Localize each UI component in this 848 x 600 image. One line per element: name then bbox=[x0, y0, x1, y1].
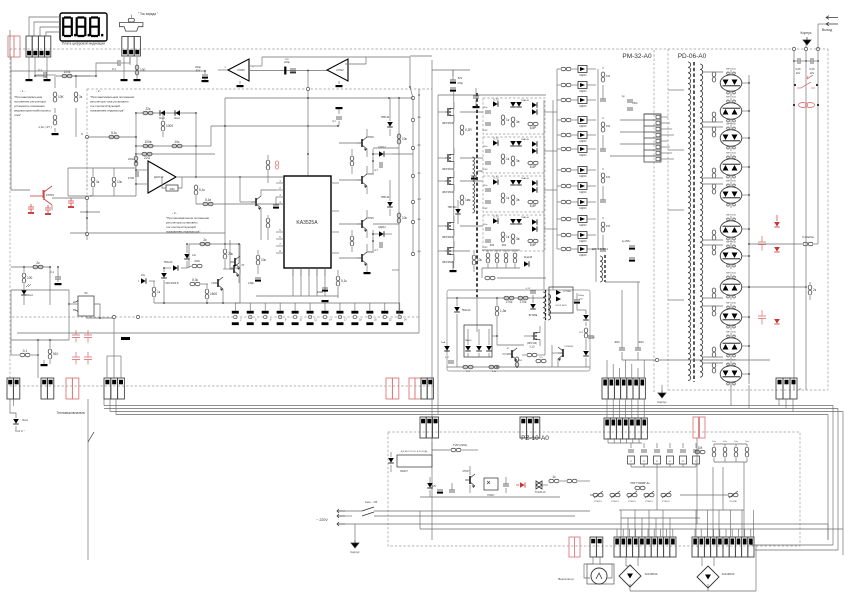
cap C12 4,7 bbox=[374, 242, 382, 252]
connector X10 red bbox=[569, 537, 580, 557]
svg-text:51Ω: 51Ω bbox=[518, 360, 522, 362]
bleeder bank PZ bbox=[712, 441, 749, 462]
svg-text:КД213: КД213 bbox=[579, 254, 587, 257]
thermistor wires bbox=[590, 494, 727, 496]
terminal strip XT3 7-pin bbox=[604, 418, 647, 439]
svg-text:- 2 -: - 2 - bbox=[172, 211, 177, 215]
chassis ground mains bbox=[350, 524, 360, 554]
svg-text:R20: R20 bbox=[490, 244, 495, 247]
capacitor C4 220u bbox=[284, 59, 290, 75]
junction bbox=[75, 75, 77, 77]
junction x136 dots bbox=[135, 112, 137, 163]
label PZ-10-A0 bbox=[521, 435, 549, 442]
wire y204 mid bbox=[196, 203, 284, 205]
dual diode module 6 bbox=[702, 215, 742, 243]
svg-text:1М: 1М bbox=[698, 446, 703, 450]
resistor R43 1600 bbox=[205, 284, 217, 303]
right diode D24 bbox=[583, 310, 589, 326]
connector X3 plug bbox=[119, 15, 142, 32]
sense resistor R26 bbox=[460, 195, 471, 205]
wire Q3 down bbox=[230, 262, 240, 274]
PD core line bbox=[693, 62, 695, 382]
wire y267 left bbox=[11, 266, 51, 268]
resistor R54 5,5 bbox=[536, 357, 546, 363]
resistor R6 5,1k bbox=[109, 131, 119, 139]
diode D4 thermal bbox=[13, 418, 28, 433]
svg-text:1,3к ( 4Т ): 1,3к ( 4Т ) bbox=[38, 125, 51, 129]
svg-text:IRFP250M: IRFP250M bbox=[442, 191, 454, 194]
svg-text:10к: 10к bbox=[117, 180, 123, 184]
svg-text:КД213: КД213 bbox=[579, 90, 587, 93]
svg-text:4,7: 4,7 bbox=[374, 168, 378, 172]
svg-text:положении регулятора: положении регулятора bbox=[14, 100, 46, 104]
op-amp DA1 bbox=[148, 161, 176, 193]
resistor R38 10k bbox=[397, 213, 407, 223]
diode D28 bbox=[486, 329, 492, 357]
svg-text:220Р: 220Р bbox=[482, 247, 488, 249]
svg-text:5,3к: 5,3к bbox=[192, 278, 198, 282]
svg-text:Д-К 08-СТС-10, В 10-П (А): Д-К 08-СТС-10, В 10-П (А) bbox=[401, 450, 428, 453]
rectifier KD213 row 1 bbox=[557, 66, 596, 78]
triac VS1 bbox=[535, 481, 548, 494]
svg-text:6,7U: 6,7U bbox=[493, 99, 498, 102]
svg-text:400V: 400V bbox=[638, 341, 644, 344]
diode D29 7mA bbox=[441, 341, 450, 351]
XT1 wires left bbox=[610, 120, 644, 156]
svg-text:РС817: РС817 bbox=[487, 494, 495, 497]
terminal strip XT4 bbox=[614, 537, 676, 557]
svg-text:KA3525A: KA3525A bbox=[296, 220, 318, 226]
svg-text:10к: 10к bbox=[712, 441, 715, 443]
caps 400V bbox=[614, 282, 644, 360]
svg-text:IRFP250M: IRFP250M bbox=[442, 236, 454, 239]
zener D7 TVR140 bbox=[447, 200, 460, 224]
transistor Q10 bbox=[463, 470, 475, 488]
outer dashed border left bbox=[9, 49, 11, 386]
resistor R53 1k bbox=[515, 357, 522, 367]
red fuse F1 bbox=[793, 103, 819, 108]
svg-text:7мА: 7мА bbox=[441, 341, 446, 344]
resistor R220k bbox=[128, 156, 138, 166]
wire y233 right bbox=[89, 232, 225, 234]
svg-text:510: 510 bbox=[53, 352, 59, 356]
svg-text:КД213: КД213 bbox=[579, 74, 587, 77]
svg-text:0,68μ: 0,68μ bbox=[248, 282, 255, 285]
Q6 wires bbox=[339, 210, 367, 238]
svg-text:10к: 10к bbox=[261, 258, 267, 262]
soft bottom wire bbox=[447, 366, 590, 368]
svg-text:10к: 10к bbox=[734, 441, 737, 443]
svg-text:КД212: КД212 bbox=[378, 225, 386, 229]
node junction y89 bbox=[306, 71, 309, 177]
svg-text:ток соответствующий: ток соответствующий bbox=[166, 225, 196, 229]
bus line 3 bbox=[110, 411, 843, 413]
node label 7 bbox=[85, 194, 92, 200]
zener D20 bbox=[184, 243, 197, 268]
red ground 1 bbox=[28, 212, 34, 214]
svg-text:Ред148: Ред148 bbox=[524, 256, 533, 259]
wire 100k to node bbox=[74, 63, 117, 76]
wire y95 right bbox=[438, 94, 546, 96]
svg-text:Red: Red bbox=[22, 418, 28, 422]
red wire left bbox=[11, 57, 30, 190]
dual diode module 8 bbox=[702, 273, 742, 301]
svg-text:КД212: КД212 bbox=[378, 145, 386, 149]
IC U4 KA3525A box bbox=[284, 176, 331, 268]
capacitor C6 4700 bbox=[128, 171, 138, 180]
svg-text:3в: 3в bbox=[516, 120, 520, 124]
relay K2 box bbox=[397, 450, 432, 473]
output arrows bbox=[818, 16, 838, 49]
svg-text:КД213: КД213 bbox=[579, 140, 587, 143]
wire X2 pins down bbox=[29, 57, 47, 79]
rectifier KD213 row 4 bbox=[557, 117, 596, 129]
bus y317 nodes bbox=[112, 315, 139, 318]
resistor R41 1k bbox=[152, 281, 161, 303]
wire y340 bbox=[11, 339, 69, 341]
svg-text:0,05: 0,05 bbox=[795, 67, 801, 71]
svg-text:ТВА140: ТВА140 bbox=[164, 261, 173, 264]
diode D19 TVR140 bbox=[381, 180, 393, 216]
junction dots bbox=[34, 75, 97, 77]
svg-text:47Ω: 47Ω bbox=[606, 75, 611, 78]
svg-text:4,7: 4,7 bbox=[374, 248, 378, 252]
varistor RV1 TVR bbox=[432, 443, 478, 452]
group cap 1 bbox=[600, 91, 606, 101]
svg-text:100: 100 bbox=[140, 68, 146, 72]
diode D26 bbox=[465, 329, 472, 357]
label current sense bbox=[138, 12, 158, 16]
XT4 wires up bbox=[617, 529, 673, 537]
capacitor C5 bbox=[290, 69, 296, 73]
svg-text:S20-08100: S20-08100 bbox=[645, 572, 658, 576]
capacitor C7 0,1 bbox=[50, 266, 61, 282]
wire x87 down bbox=[86, 200, 88, 218]
wire x69 bbox=[68, 290, 70, 340]
wire chain right bbox=[75, 76, 77, 137]
svg-text:0,1: 0,1 bbox=[38, 68, 43, 72]
svg-text:ТВР140: ТВР140 bbox=[381, 117, 390, 119]
svg-text:"При максимальном: "При максимальном bbox=[14, 95, 42, 99]
driver rail x544 bbox=[543, 100, 545, 290]
svg-text:6,7U: 6,7U bbox=[493, 138, 498, 141]
op-amp U2 K140UD bbox=[228, 59, 249, 81]
sense resistor R25 0,2R bbox=[460, 125, 472, 135]
resistor R40 2200 bbox=[187, 260, 202, 268]
svg-text:5,1к: 5,1к bbox=[199, 188, 205, 192]
display wires to connector bbox=[29, 17, 60, 36]
svg-text:МОСР100-В: МОСР100-В bbox=[165, 283, 178, 285]
label 50v cap bbox=[471, 169, 483, 180]
rail y126 bbox=[211, 125, 339, 127]
mosfet M6 bbox=[524, 326, 540, 346]
svg-text:КВРС3510: КВРС3510 bbox=[726, 97, 737, 99]
wire PZ mid bbox=[469, 466, 471, 493]
cap C28 0,1 bbox=[332, 107, 342, 126]
chassis ground XT2 bbox=[657, 385, 667, 404]
label thermal switch bbox=[56, 411, 85, 415]
KD bus x557 bbox=[556, 69, 558, 249]
ground Q7 bbox=[364, 272, 371, 274]
wire y244 bbox=[189, 233, 240, 245]
wire y168 horizontal bbox=[68, 167, 136, 169]
PD diode outputs to bus bbox=[742, 82, 750, 375]
svg-text:индикаторов наибольшего: индикаторов наибольшего bbox=[14, 109, 51, 113]
chassis ground top bbox=[803, 37, 811, 45]
svg-text:1000μ: 1000μ bbox=[578, 295, 585, 297]
mains wire right bbox=[388, 524, 843, 529]
IC U4 pin stubs bbox=[276, 180, 339, 276]
red diode D10 bbox=[774, 247, 780, 252]
capacitor C19 0,1G bbox=[445, 357, 454, 363]
wire x87 to 190 bbox=[86, 137, 88, 190]
bridge BR2 wires bbox=[702, 557, 714, 566]
svg-text:- 1 -: - 1 - bbox=[20, 89, 25, 93]
bus line 1 bbox=[104, 405, 833, 407]
cap C21 12V bbox=[432, 485, 443, 494]
svg-text:КД213: КД213 bbox=[579, 191, 587, 194]
bridge BR1 wires bbox=[626, 557, 638, 566]
svg-text:"При максимальном положении: "При максимальном положении bbox=[90, 95, 135, 99]
resistor R10 10k bbox=[172, 140, 182, 148]
diode D1 red label bbox=[159, 110, 165, 120]
svg-text:PD-06-A0: PD-06-A0 bbox=[678, 53, 707, 60]
svg-text:47Ω: 47Ω bbox=[606, 225, 611, 228]
svg-text:R22: R22 bbox=[502, 244, 507, 247]
label IRU140 bbox=[527, 343, 537, 349]
thermal switch wire bbox=[88, 399, 94, 560]
svg-text:Red: Red bbox=[174, 116, 180, 120]
terminal strip XT5 bbox=[692, 537, 754, 557]
svg-text:УАз: УАз bbox=[141, 274, 145, 277]
svg-text:5,1в: 5,1в bbox=[205, 198, 211, 202]
current transformer T2 bbox=[592, 247, 609, 282]
svg-text:10K: 10K bbox=[58, 95, 65, 99]
svg-text:ток соответствующий: ток соответствующий bbox=[90, 104, 120, 108]
resistor R24 10k bbox=[472, 250, 482, 272]
driver module 2 bbox=[482, 137, 545, 173]
wire y318 bbox=[86, 317, 115, 319]
ground X2-b bbox=[44, 79, 51, 81]
PD-06-A0 block dashed right bbox=[827, 49, 829, 390]
DA1 output wire bbox=[176, 176, 230, 178]
label fan bbox=[558, 577, 574, 581]
svg-text:ТВА140: ТВА140 bbox=[521, 177, 530, 180]
svg-text:Корпус: Корпус bbox=[657, 400, 667, 404]
wire y290 bbox=[11, 289, 69, 291]
svg-text:220к: 220к bbox=[483, 146, 488, 148]
svg-text:Сеть - Off: Сеть - Off bbox=[365, 500, 378, 504]
svg-text:0,1У: 0,1У bbox=[526, 288, 531, 290]
red cap 1 bbox=[28, 204, 34, 212]
Q4 resistor bbox=[350, 149, 354, 174]
resistor R9 100k bbox=[143, 140, 153, 148]
rectifier KD213 row 5 bbox=[557, 132, 596, 144]
svg-text:Red: Red bbox=[27, 293, 33, 297]
label PD-06-A0 bbox=[678, 53, 707, 60]
dual diode module 7 bbox=[702, 242, 742, 270]
cap C11 4,7 bbox=[374, 162, 382, 172]
rectifier KD213 row 7 bbox=[557, 167, 596, 179]
cap C18 0,05 bbox=[806, 58, 819, 75]
wire left edge down bbox=[9, 30, 11, 57]
fan wires bbox=[584, 557, 612, 578]
transistor Q7 bbox=[357, 250, 374, 266]
jumper K1 box bbox=[73, 291, 94, 316]
PD-06-A0 block dashed left bbox=[667, 49, 669, 390]
svg-text:10к: 10к bbox=[175, 140, 181, 144]
connector X8 3-pin bbox=[776, 378, 801, 399]
gate node 2c bbox=[411, 171, 421, 178]
group cap 2 bbox=[600, 141, 606, 151]
PD output wire y287 bbox=[748, 286, 807, 288]
core tail wire bbox=[476, 297, 478, 332]
resistor R28 2r bbox=[808, 282, 817, 300]
svg-text:регулятора тока установить: регулятора тока установить bbox=[90, 100, 129, 104]
svg-text:6,7U: 6,7U bbox=[493, 177, 498, 180]
resistor R42 5,3k bbox=[190, 278, 208, 286]
main bus x438 bbox=[437, 95, 439, 414]
note text block 1 bbox=[14, 89, 51, 117]
group resistor 3 bbox=[601, 168, 610, 192]
svg-text:КТ817: КТ817 bbox=[463, 470, 471, 473]
svg-text:10к: 10к bbox=[402, 216, 408, 220]
wire x240 vert bbox=[239, 176, 241, 202]
svg-text:ТВА140: ТВА140 bbox=[521, 216, 530, 219]
svg-text:" t-0 C ": " t-0 C " bbox=[15, 429, 25, 433]
connector X9 3-pin bbox=[420, 417, 439, 438]
resistor R44 23k bbox=[223, 243, 240, 269]
note text block 2 bbox=[90, 89, 135, 113]
svg-text:10к: 10к bbox=[402, 137, 408, 141]
svg-text:5b: 5b bbox=[84, 291, 88, 295]
gate node 2b bbox=[411, 143, 421, 150]
resistor R37 10k bbox=[397, 134, 407, 144]
ground IC row bbox=[322, 300, 329, 302]
rectifier KD213 row 8 bbox=[557, 183, 596, 195]
wires X4 down bbox=[10, 399, 16, 418]
svg-text:PM-32-A0: PM-32-A0 bbox=[622, 53, 652, 60]
XT5 feed verticals bbox=[696, 510, 754, 537]
svg-text:10Ω: 10Ω bbox=[169, 187, 174, 191]
wire y113 bbox=[136, 112, 196, 114]
rail x794 bbox=[793, 49, 795, 390]
svg-text:КВРС3510: КВРС3510 bbox=[726, 69, 737, 71]
svg-text:50V: 50V bbox=[458, 76, 463, 80]
diode D22 MOC bbox=[161, 267, 179, 288]
label on-off bbox=[365, 500, 378, 504]
bus right verticals bbox=[828, 406, 843, 556]
svg-text:270к: 270к bbox=[520, 300, 527, 304]
svg-text:12V: 12V bbox=[432, 485, 437, 488]
svg-text:КТΩ-15: КТΩ-15 bbox=[611, 501, 619, 503]
IC U4 label bbox=[296, 220, 318, 226]
PZ-10-A0 block dashed border bbox=[388, 432, 800, 546]
rail y98 bbox=[225, 97, 413, 99]
svg-text:220μ: 220μ bbox=[195, 65, 201, 69]
capacitor C3 220u bbox=[195, 65, 208, 80]
rectifier KD213 row 9 bbox=[557, 199, 596, 211]
svg-text:регулятора установить: регулятора установить bbox=[166, 221, 198, 225]
group cap 4 bbox=[600, 241, 606, 251]
dual diode module 11 bbox=[702, 360, 742, 388]
cap C23 bbox=[503, 477, 509, 493]
svg-text:ТВА140: ТВА140 bbox=[462, 309, 471, 312]
svg-text:250v: 250v bbox=[632, 102, 638, 105]
red breaker SW1 bbox=[794, 75, 818, 88]
connector X12 red bbox=[386, 378, 399, 399]
transistor Q3 bbox=[230, 256, 240, 270]
svg-text:4700: 4700 bbox=[128, 176, 135, 180]
svg-text:КВРС3510: КВРС3510 bbox=[726, 153, 737, 155]
resistor R46 270k bbox=[504, 296, 514, 304]
svg-text:S20-08100: S20-08100 bbox=[722, 572, 735, 576]
cap C7 gnd bbox=[55, 283, 62, 285]
svg-text:ТВР140: ТВР140 bbox=[381, 197, 390, 199]
transistor Q2 bbox=[251, 196, 261, 210]
driver module 4 bbox=[482, 215, 545, 251]
PZ vertical feeders bbox=[657, 438, 744, 537]
svg-text:IRFP250M: IRFP250M bbox=[442, 261, 454, 264]
XT4 feed verticals bbox=[621, 510, 670, 537]
dual diode module 4 bbox=[702, 153, 742, 181]
Q pair joins bbox=[372, 149, 374, 252]
vertical x225 bbox=[224, 98, 226, 233]
group cap 3 bbox=[600, 192, 606, 202]
svg-text:НВР ТУММВГ-8а: НВР ТУММВГ-8а bbox=[631, 482, 651, 485]
resistor R15 5,1k v bbox=[194, 185, 205, 204]
svg-text:ВУ12ВЕ: ВУ12ВЕ bbox=[529, 315, 538, 317]
conn X8 wires bbox=[779, 399, 793, 412]
svg-text:100k: 100k bbox=[64, 70, 71, 74]
outer dashed border top bbox=[10, 48, 828, 50]
ground X3-a bbox=[121, 79, 128, 81]
interstage wire y70 bbox=[250, 70, 327, 72]
wire x12 left bbox=[10, 290, 12, 355]
svg-text:IRFP250M: IRFP250M bbox=[442, 168, 454, 171]
svg-text:220к: 220к bbox=[483, 185, 488, 187]
svg-text:КТ815: КТ815 bbox=[366, 135, 374, 139]
KD bus x553 bbox=[552, 100, 554, 290]
terminal strip XT2 7-pin bbox=[602, 378, 645, 399]
svg-text:ТВА140: ТВА140 bbox=[465, 339, 472, 342]
transformer T3 bbox=[543, 290, 551, 321]
resistor R3 10K bbox=[53, 92, 64, 102]
mains wire into PZ bbox=[420, 511, 590, 529]
rail y57 to gate bus bbox=[409, 57, 413, 98]
bus line 4 bbox=[116, 414, 828, 416]
ground X3-b bbox=[134, 79, 141, 81]
main bus x432 bbox=[431, 60, 433, 540]
svg-text:10к: 10к bbox=[745, 441, 748, 443]
aux rectifier box bbox=[549, 287, 573, 313]
svg-text:КД213: КД213 bbox=[579, 154, 587, 157]
power mosfet M5 bbox=[438, 241, 454, 264]
capacitor C1 0,1 bbox=[35, 68, 56, 78]
XT5 wires up bbox=[695, 529, 751, 537]
svg-text:1,3в: 1,3в bbox=[500, 309, 506, 313]
svg-text:ДАТЧИК ВК-1: ДАТЧИК ВК-1 bbox=[592, 247, 609, 251]
resistor R39 2k bbox=[200, 238, 210, 246]
resistor R51 473 bbox=[463, 365, 473, 373]
mains arrows bbox=[337, 509, 345, 526]
wire top bus y56 bbox=[410, 55, 432, 57]
snubber resistor network bbox=[482, 244, 520, 268]
svg-text:КТ815: КТ815 bbox=[366, 216, 374, 220]
node 1b bbox=[85, 232, 88, 240]
ground R4 bbox=[52, 128, 59, 135]
svg-text:- 2 -: - 2 - bbox=[96, 89, 101, 93]
